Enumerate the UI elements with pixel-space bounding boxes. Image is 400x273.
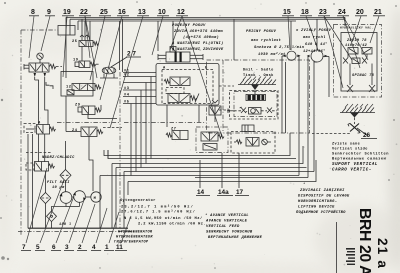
relief valve unit 17 xyxy=(231,132,275,154)
svg-text:Timok - Omsk: Timok - Omsk xyxy=(243,73,274,78)
label 9 xyxy=(41,9,55,51)
svg-text:25: 25 xyxy=(100,9,108,16)
svg-text:Z7: Z7 xyxy=(171,128,176,132)
cooler valve with solenoid box xyxy=(26,153,55,172)
svg-text:SUPORT VERTICAL: SUPORT VERTICAL xyxy=(332,163,378,167)
svg-text:3: 3 xyxy=(65,244,69,251)
valve 24a xyxy=(66,96,122,137)
filter F1 xyxy=(60,141,71,192)
node text block lifting device xyxy=(296,182,350,215)
svg-text:13: 13 xyxy=(138,9,146,16)
svg-text:5: 5 xyxy=(36,244,40,251)
svg-text:#3: #3 xyxy=(124,87,130,91)
svg-text:19: 19 xyxy=(73,59,78,63)
svg-text:VERTICAL FEED: VERTICAL FEED xyxy=(206,225,240,229)
valve 13 inside manifold xyxy=(168,94,199,103)
svg-text:Sytemgenerator: Sytemgenerator xyxy=(120,198,156,203)
svg-text:2: 2 xyxy=(78,244,82,251)
svg-text:DISPOSITIF DE LEVAGE: DISPOSITIF DE LEVAGE xyxy=(298,195,350,199)
pipe pair right xyxy=(308,57,314,178)
wire bus drop x122 xyxy=(122,19,124,72)
label 27 xyxy=(111,51,141,68)
svg-text:* AVANCE VERTICAL: * AVANCE VERTICAL xyxy=(205,213,249,218)
svg-text:#4: #4 xyxy=(124,94,130,98)
wire lower nest xyxy=(100,133,316,228)
valve cluster 14 xyxy=(166,127,228,153)
label 18 xyxy=(300,9,318,50)
label 4 xyxy=(91,208,107,251)
anchor symbol 26 xyxy=(348,123,360,133)
wire valveX1 down xyxy=(38,134,40,162)
svg-text:Dmil - Sadlo: Dmil - Sadlo xyxy=(243,68,274,73)
svg-text:23: 23 xyxy=(319,9,327,16)
label 14a xyxy=(217,153,233,196)
svg-text:x ZVISLY POSUV: x ZVISLY POSUV xyxy=(295,29,332,33)
svg-text:9: 9 xyxy=(47,9,51,16)
svg-text:21: 21 xyxy=(374,9,382,16)
wire manifold drops xyxy=(166,105,168,127)
svg-text:ГИДРОГЕНЕРАТОР: ГИДРОГЕНЕРАТОР xyxy=(114,241,149,245)
node text block vertical feed xyxy=(295,29,332,54)
junction box under label 19 xyxy=(58,26,75,36)
svg-text:ZDVIH 460+37S 440mm: ZDVIH 460+37S 440mm xyxy=(173,30,223,34)
svg-text:ZDVIHACI ZARIZENI: ZDVIHACI ZARIZENI xyxy=(299,189,345,193)
svg-text:LIFTING DEVICE: LIFTING DEVICE xyxy=(298,206,335,210)
node text filter label xyxy=(47,181,70,190)
wire nest verticals xyxy=(131,77,151,176)
label 22 xyxy=(79,9,97,78)
check valve symbols bottom xyxy=(347,78,375,92)
svg-text:14: 14 xyxy=(197,189,205,196)
svg-text:HYDRAULICKY VAL.: HYDRAULICKY VAL. xyxy=(340,27,374,30)
svg-text:16: 16 xyxy=(118,9,126,16)
filter F2 xyxy=(40,171,51,228)
machine boundary dash-dot horizontal xyxy=(57,122,119,124)
svg-text:CARRO VERTIC-: CARRO VERTIC- xyxy=(332,169,372,173)
node text cooler xyxy=(42,155,75,160)
label 24 xyxy=(337,9,368,68)
frame left dash-dot border xyxy=(20,30,22,235)
svg-text:Z4: Z4 xyxy=(72,129,78,133)
label 1 xyxy=(104,212,119,251)
svg-text:22: 22 xyxy=(80,9,88,16)
label 13 xyxy=(110,9,149,128)
svg-text:12+44/96°: 12+44/96° xyxy=(303,49,326,54)
svg-text:6: 6 xyxy=(52,244,56,251)
svg-text:1: 1 xyxy=(105,244,109,251)
valve 21a small center xyxy=(350,58,372,78)
valve 14b left column xyxy=(209,100,221,122)
svg-text:20: 20 xyxy=(356,9,364,16)
svg-text:11: 11 xyxy=(116,244,123,251)
svg-text:SPINAC 78: SPINAC 78 xyxy=(352,74,375,78)
svg-text:max rychl: max rychl xyxy=(302,35,326,40)
motor 27 xyxy=(100,67,118,78)
node text block longitudinal feed xyxy=(172,24,224,52)
svg-text:1930 mm²/ot: 1930 mm²/ot xyxy=(258,52,286,57)
breaker hammer block xyxy=(230,90,279,119)
breaker unit boundary dash-dot xyxy=(207,60,310,133)
svg-text:FILT SACI: FILT SACI xyxy=(47,181,70,185)
svg-text:25: 25 xyxy=(72,40,78,44)
frame title vertical line xyxy=(336,222,338,273)
wire top bus line 2 xyxy=(70,18,345,20)
wire bus left drop xyxy=(65,17,67,78)
svg-text:M: M xyxy=(94,197,97,201)
label 5 xyxy=(35,180,64,251)
wire valve8 down pipes xyxy=(34,77,36,80)
orifice restrictor xyxy=(46,82,53,89)
wire pump suction xyxy=(52,207,67,212)
pump P1 xyxy=(60,192,72,207)
label 10 xyxy=(152,9,169,55)
svg-text:A: A xyxy=(163,67,166,71)
svg-text:2 7: 2 7 xyxy=(127,51,136,58)
svg-text:NADRZ/CHLADIC: NADRZ/CHLADIC xyxy=(42,155,75,160)
dash-dot vertical x120 xyxy=(119,72,121,228)
valve 25/22 pilot pair xyxy=(72,19,98,61)
node text block vertical advance xyxy=(205,213,263,240)
svg-text:24: 24 xyxy=(338,9,346,16)
svg-text:ПОДЪЕМНОЕ УСТРОЙСТВО: ПОДЪЕМНОЕ УСТРОЙСТВО xyxy=(296,210,346,215)
wire inner column dash-dot xyxy=(222,60,224,133)
wire top bus line 3 xyxy=(78,20,296,22)
cylinder inner box xyxy=(341,33,377,92)
svg-text:BRH 20 A: BRH 20 A xyxy=(356,208,373,273)
label 26 xyxy=(357,128,377,139)
svg-text:26: 26 xyxy=(363,132,371,139)
svg-text:(4p+57S 490mm): (4p+57S 490mm) xyxy=(183,35,219,40)
valve 16a xyxy=(75,104,117,119)
label 7 xyxy=(21,168,47,251)
wire dashed link to unit xyxy=(312,133,351,135)
svg-text:AVANCE VERTICALE: AVANCE VERTICALE xyxy=(205,220,248,224)
svg-text:Snekova Ø 2,75 l/min: Snekova Ø 2,75 l/min xyxy=(254,45,305,50)
label 11 xyxy=(115,216,131,251)
svg-text:ZDVIH 78: ZDVIH 78 xyxy=(346,39,367,43)
label 6 xyxy=(51,196,74,251)
svg-text:PODELNY POSUV: PODELNY POSUV xyxy=(172,24,206,28)
svg-text:19: 19 xyxy=(63,9,71,16)
svg-text:17: 17 xyxy=(236,189,244,196)
svg-text:*: * xyxy=(303,182,305,187)
filter F3 return xyxy=(47,211,57,228)
svg-text:14a: 14a xyxy=(218,189,229,196)
node text block cross feed xyxy=(246,30,305,57)
wire left tank drop xyxy=(27,134,29,228)
svg-text:Zvisle sane: Zvisle sane xyxy=(332,142,360,147)
wire top bus line 1 xyxy=(66,16,345,18)
wire bus drop x120 xyxy=(119,21,121,70)
svg-text:Вертикальные салазки: Вертикальные салазки xyxy=(332,158,386,162)
svg-text:15: 15 xyxy=(283,9,291,16)
shock absorber row xyxy=(227,107,277,114)
label 15 xyxy=(282,9,294,50)
wire bus drop to pump 15 xyxy=(290,21,292,50)
svg-text:PRICNY POSUV: PRICNY POSUV xyxy=(246,30,277,34)
motor M xyxy=(72,192,101,202)
svg-text:7: 7 xyxy=(22,244,26,251)
svg-text:max rychlost: max rychlost xyxy=(250,38,281,43)
label 17 xyxy=(235,153,249,196)
svg-text:HYDROGENERATOR: HYDROGENERATOR xyxy=(118,231,153,235)
svg-text:HUBVORRICHTUNG-: HUBVORRICHTUNG- xyxy=(298,200,337,204)
svg-text:SENKRECHT VORSCHUB: SENKRECHT VORSCHUB xyxy=(206,231,253,235)
cylinder unit box dash-dot xyxy=(334,25,382,98)
node text block hydrogenerator xyxy=(114,231,153,245)
label 3 xyxy=(64,200,84,251)
cylinder 16 assembly xyxy=(158,47,203,63)
svg-text:2,2 kW,1150 ot/min /60 Hz.: 2,2 kW,1150 ot/min /60 Hz. xyxy=(138,222,206,227)
svg-text:#5: #5 xyxy=(124,101,130,105)
svg-text:21 a: 21 a xyxy=(375,238,390,269)
label 25 xyxy=(90,9,111,80)
gauge 9 xyxy=(37,53,43,63)
label 21 xyxy=(370,9,385,43)
wire bus drop to valve 16 xyxy=(157,21,159,51)
label 19 xyxy=(62,9,74,77)
label 2 xyxy=(77,204,95,251)
pump P2 xyxy=(73,191,86,207)
wire right verticals lower xyxy=(0,0,1,1)
svg-text:10: 10 xyxy=(158,9,166,16)
label 12 xyxy=(170,9,222,137)
svg-text:12: 12 xyxy=(177,9,185,16)
label 16 xyxy=(100,9,129,100)
node text block vertical slide xyxy=(332,142,389,173)
svg-text:4: 4 xyxy=(38,122,41,126)
valve 8 main distributor xyxy=(24,63,62,77)
svg-text:Senkrechter Schlitten: Senkrechter Schlitten xyxy=(332,152,389,157)
svg-text:27,6/12,7 1.5 mm³/60 Hz/: 27,6/12,7 1.5 mm³/60 Hz/ xyxy=(121,210,196,215)
wire bus right end drop xyxy=(344,17,346,26)
ground hatch center xyxy=(238,77,276,91)
valve 19 pilot xyxy=(73,59,100,68)
pipe pair left xyxy=(282,56,299,176)
svg-text:4 NASTAVENI ZDVIHOVE: 4 NASTAVENI ZDVIHOVE xyxy=(172,48,224,52)
svg-text:18: 18 xyxy=(301,9,309,16)
label 8 xyxy=(29,9,39,58)
svg-text:12: 12 xyxy=(66,86,71,90)
check valve symbols top xyxy=(343,54,367,64)
label 14 xyxy=(196,160,210,196)
frame top-left dash-dot xyxy=(21,29,58,31)
node text cylinder data xyxy=(345,39,368,48)
svg-text:10 μm: 10 μm xyxy=(52,186,65,190)
valve 12 inside manifold xyxy=(164,77,190,94)
node text Beton-Boden xyxy=(243,68,274,79)
svg-text:N = 1,5 kW,950 ot/min /50 Hz/: N = 1,5 kW,950 ot/min /50 Hz/ xyxy=(124,216,203,221)
svg-text:4: 4 xyxy=(92,244,96,251)
ground hatch right xyxy=(340,104,375,124)
manifold block assembly xyxy=(156,64,219,106)
label 20 xyxy=(352,9,367,42)
node text block generator data xyxy=(120,198,206,227)
svg-text:HYDROGENERATEUR: HYDROGENERATEUR xyxy=(116,236,153,240)
valve X1 with solenoid xyxy=(24,122,56,135)
small box 13b xyxy=(242,125,254,132)
svg-text:ВЕРТИКАЛЬНОЕ ДВИЖЕНИЕ: ВЕРТИКАЛЬНОЕ ДВИЖЕНИЕ xyxy=(208,236,263,240)
stamp marks xyxy=(346,248,355,265)
valve 20 inside cylinder box xyxy=(348,48,372,55)
svg-text:640 H 44°: 640 H 44° xyxy=(305,42,328,47)
svg-text:#2: #2 xyxy=(124,74,129,78)
label 23 xyxy=(318,9,352,88)
pump 15 xyxy=(282,51,301,60)
pump 18 vertical drive xyxy=(307,19,329,97)
svg-text:Vertical slide: Vertical slide xyxy=(332,147,368,152)
svg-text:Z9: Z9 xyxy=(75,104,80,108)
tank line xyxy=(28,227,128,229)
svg-text:180 l: 180 l xyxy=(59,222,71,227)
wire nest upper h1 xyxy=(123,70,156,105)
valve block 22/25 xyxy=(61,72,101,97)
svg-text:4 NASTAVENI PL(OTNI): 4 NASTAVENI PL(OTNI) xyxy=(172,41,224,46)
svg-text:23,2/12,7 1 mm²/50 Hz/: 23,2/12,7 1 mm²/50 Hz/ xyxy=(121,205,194,210)
svg-text:8: 8 xyxy=(31,9,35,16)
wire bus drop x234 xyxy=(233,19,235,60)
